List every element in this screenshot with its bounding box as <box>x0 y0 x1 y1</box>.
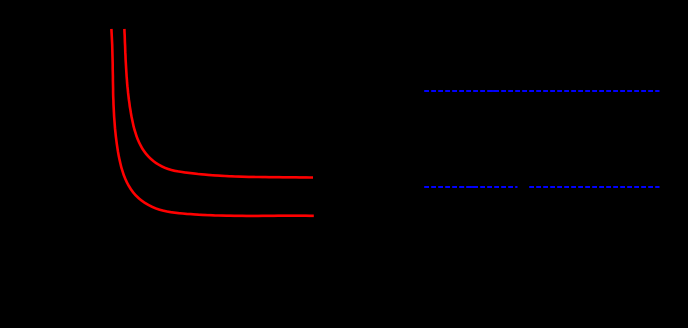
red curve C1 (inner hyperbola, lower-left) <box>111 29 313 216</box>
blue dashed energy level line E2 (lower) <box>424 186 659 188</box>
gap in E2 dashes <box>518 185 529 189</box>
extra merged dash on E1 <box>492 90 496 92</box>
red curve C2 (outer hyperbola, upper-right) <box>124 29 313 178</box>
dense dash cluster on E2 <box>462 186 464 188</box>
blue dashed energy level line E1 (upper) <box>424 90 659 92</box>
